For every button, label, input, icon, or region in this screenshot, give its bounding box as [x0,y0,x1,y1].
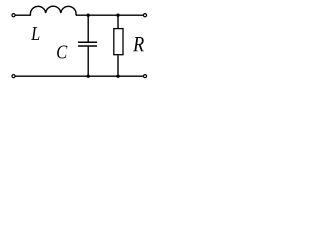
wire (inductor to top-right terminal) [76,14,144,16]
capacitor C bottom plate [78,45,97,47]
resistor R box [114,29,123,55]
node (bottom, resistor junction) [116,75,119,78]
label L [31,27,39,40]
wire (resistor top lead) [117,15,119,28]
wire (capacitor top lead) [87,15,89,41]
wire (top-left to inductor) [15,14,31,16]
node (top, resistor junction) [116,14,119,17]
label R [133,37,144,51]
terminal (top-left) [12,14,15,17]
wire (capacitor bottom lead) [87,47,89,77]
capacitor C top plate [78,41,97,43]
wire (resistor bottom lead) [117,55,119,76]
node (bottom, capacitor junction) [87,75,90,78]
label C [57,45,67,58]
node (top, capacitor junction) [87,14,90,17]
wire (bottom rail) [15,75,143,77]
terminal (bottom-right) [143,75,146,78]
terminal (top-right) [143,14,146,17]
inductor L [30,6,76,15]
terminal (bottom-left) [12,75,15,78]
